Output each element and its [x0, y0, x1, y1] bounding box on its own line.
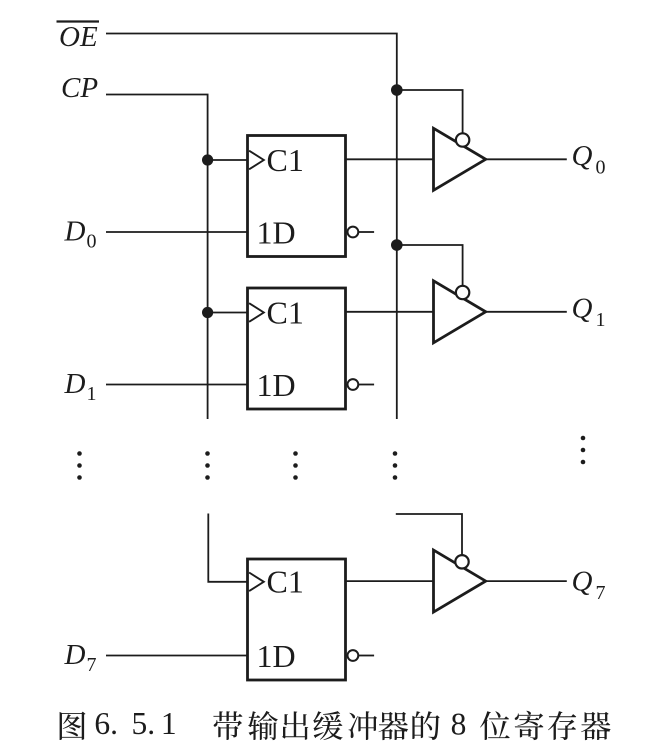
stub wire from FF1 inverted output [359, 384, 374, 386]
junction node CP to FF0 clock [202, 154, 213, 165]
ellipsis dots column 2 (under CP line) [205, 451, 210, 480]
svg-text:Q: Q [572, 566, 593, 598]
svg-text:6.: 6. [94, 706, 118, 741]
stub wire from FF0 inverted output [359, 231, 374, 233]
svg-text:1D: 1D [257, 638, 296, 674]
wire D1 input to 1D pin [106, 384, 248, 386]
enable bubble of tri-state buffer 7 [455, 555, 468, 568]
label Q1 [572, 293, 606, 332]
wire FF7 Q output to buffer [346, 580, 434, 582]
label D7 [64, 639, 97, 676]
wire buffer 0 output to Q0 [486, 158, 567, 160]
svg-text:1: 1 [596, 309, 606, 331]
svg-text:CP: CP [61, 72, 98, 104]
svg-text:7: 7 [596, 582, 606, 604]
svg-text:Q: Q [572, 140, 593, 172]
svg-text:1D: 1D [257, 214, 296, 250]
ellipsis dots column 5 (under Q outputs) [581, 436, 586, 465]
svg-text:D: D [64, 639, 86, 671]
net CP wire (horizontal from label, down to registers) [106, 95, 208, 420]
svg-text:1D: 1D [257, 367, 296, 403]
label Q7 [572, 566, 606, 605]
wire buffer 1 output to Q1 [486, 311, 567, 313]
flip-flop FF1 box [248, 288, 346, 409]
svg-text:0: 0 [87, 231, 97, 253]
label D1 [64, 368, 97, 405]
wire FF0 Q output to buffer [346, 158, 434, 160]
label OE-bar with overline [59, 21, 98, 53]
flip-flop FF7 box [248, 559, 346, 680]
svg-text:7: 7 [87, 654, 97, 676]
inverted output bubble of FF1 [348, 379, 359, 390]
caption figure number text 图 6. 5. 1 [60, 712, 86, 740]
inverted output bubble of FF7 [348, 650, 359, 661]
wire FF1 Q output to buffer [346, 311, 434, 313]
enable bubble of tri-state buffer 1 [456, 286, 469, 299]
svg-text:0: 0 [596, 156, 606, 178]
net OE-bar wire (horizontal from label, down right side) [106, 34, 397, 420]
ellipsis dots column 4 (under OE line) [393, 451, 398, 480]
svg-text:C1: C1 [267, 142, 304, 178]
wire CP stub to FF7 C1 pin [208, 514, 247, 582]
svg-text:C1: C1 [267, 564, 304, 600]
wire CP to FF0 C1 pin [208, 159, 248, 161]
stub wire from FF7 inverted output [359, 655, 374, 657]
ellipsis dots column 3 (under registers) [293, 451, 298, 480]
svg-text:Q: Q [572, 293, 593, 325]
wire D0 input to 1D pin [106, 231, 248, 233]
wire OE to buffer 1 enable bubble [397, 245, 463, 293]
junction node CP to FF1 clock [202, 307, 213, 318]
svg-text:D: D [64, 216, 86, 248]
svg-text:8: 8 [451, 706, 467, 741]
wire OE to buffer 0 enable bubble [397, 90, 463, 140]
clock edge-trigger symbol FF7 [249, 573, 264, 592]
svg-text:D: D [64, 368, 86, 400]
svg-text:5.: 5. [132, 706, 156, 741]
svg-text:1: 1 [87, 383, 97, 405]
wire buffer 7 output to Q7 [486, 580, 567, 582]
tri-state buffer 7 triangle [434, 550, 486, 612]
inverted output bubble of FF0 [348, 227, 359, 238]
svg-text:C1: C1 [267, 294, 304, 330]
caption text 带输出缓冲器的 8 位寄存器 [213, 711, 439, 740]
label Q0 [572, 140, 606, 179]
clock edge-trigger symbol FF0 [249, 151, 264, 170]
wire OE stub to buffer 7 enable bubble [396, 514, 462, 562]
wire D7 input to 1D pin [106, 655, 248, 657]
label D0 [64, 216, 97, 253]
junction node OE to buffer 0 enable [391, 84, 403, 96]
junction node OE to buffer 1 enable [391, 239, 403, 251]
svg-text:1: 1 [161, 706, 177, 741]
flip-flop FF0 box [248, 136, 346, 257]
tri-state buffer 1 triangle [434, 281, 486, 343]
clock edge-trigger symbol FF1 [249, 303, 264, 322]
tri-state buffer 0 triangle [434, 128, 486, 190]
svg-text:OE: OE [59, 21, 98, 53]
enable bubble of tri-state buffer 0 [456, 133, 469, 146]
ellipsis dots column 1 (under D inputs) [77, 451, 82, 480]
wire CP to FF1 C1 pin [208, 312, 248, 314]
